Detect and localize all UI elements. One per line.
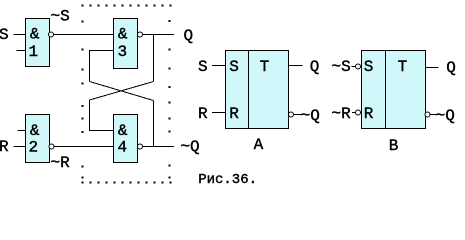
svg-text:3: 3 [118,43,128,61]
svg-text:Q: Q [446,59,456,77]
svg-text:~S: ~S [332,58,351,76]
svg-text:R: R [364,105,374,123]
svg-text:Q: Q [310,58,320,76]
svg-text:Q: Q [184,27,194,45]
svg-text:~R: ~R [332,105,352,123]
svg-text:~Q: ~Q [436,107,455,125]
svg-text:B: B [389,137,399,155]
svg-text:Рис.36.: Рис.36. [198,172,257,188]
svg-text:1: 1 [29,43,39,61]
svg-text:R: R [0,138,9,156]
svg-text:~S: ~S [51,8,70,26]
svg-text:R: R [229,105,239,123]
svg-text:S: S [364,58,374,76]
svg-text:T: T [398,58,408,76]
svg-text:2: 2 [29,139,39,157]
svg-text:&: & [30,26,40,44]
svg-text:S: S [229,58,239,76]
svg-text:&: & [30,122,40,140]
svg-text:~Q: ~Q [301,107,320,125]
svg-text:T: T [260,58,270,76]
svg-text:S: S [0,26,9,44]
svg-text:~Q: ~Q [180,138,199,156]
svg-text:4: 4 [118,139,128,157]
svg-text:A: A [254,136,264,154]
svg-text:R: R [198,105,208,123]
svg-text:&: & [118,122,128,140]
svg-text:&: & [118,26,128,44]
svg-text:S: S [198,58,208,76]
svg-text:~R: ~R [51,154,71,172]
